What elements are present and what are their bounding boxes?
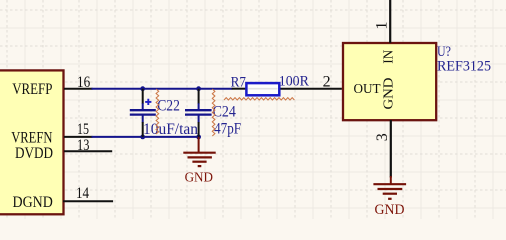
compile-mask squiggle on C22: [156, 89, 159, 134]
pin 15: [64, 121, 93, 138]
junction at C22 top: [140, 86, 145, 91]
value 100R: [279, 73, 309, 89]
resistor R7: [232, 83, 342, 95]
pin name DVDD: [15, 145, 53, 162]
pin name VREFN: [11, 129, 53, 146]
svg-text:IN: IN: [382, 50, 397, 64]
svg-text:C24: C24: [213, 103, 236, 120]
wire VREFP net: [92, 88, 233, 90]
svg-text:DGND: DGND: [13, 194, 53, 211]
designator R7: [231, 74, 247, 90]
svg-text:3: 3: [374, 133, 391, 141]
compile-mask squiggle on R7: [224, 98, 294, 100]
pin number 2: [323, 73, 331, 90]
svg-text:REF3125: REF3125: [437, 59, 491, 75]
pin 14: [63, 185, 113, 202]
svg-text:16: 16: [77, 74, 90, 91]
pin name IN: [382, 50, 397, 64]
pin 3 (GND) wire down: [390, 120, 392, 178]
svg-text:10uF/tan: 10uF/tan: [143, 121, 198, 138]
pin number 3: [374, 133, 391, 141]
designator U?: [437, 44, 451, 60]
connector J body: [0, 70, 64, 214]
pin name VREFP: [12, 81, 52, 98]
designator C24: [213, 103, 236, 120]
junction at C24 bottom: [196, 135, 201, 140]
value REF3125: [437, 59, 491, 75]
compile-mask squiggle on C24: [212, 89, 215, 136]
ground power port GND (right): [373, 176, 406, 199]
svg-text:VREFN: VREFN: [11, 129, 53, 146]
pin name GND: [382, 78, 397, 110]
ground power port GND (left): [183, 137, 215, 166]
svg-text:100R: 100R: [279, 73, 309, 89]
junction at C22 bottom: [140, 135, 145, 140]
value 10uF/tan: [143, 121, 198, 138]
svg-text:1: 1: [373, 22, 390, 30]
svg-text:VREFP: VREFP: [12, 81, 52, 98]
wire VREFN net: [92, 136, 199, 138]
svg-text:GND: GND: [185, 171, 213, 186]
svg-text:13: 13: [77, 137, 89, 154]
svg-text:R7: R7: [231, 74, 247, 90]
pin name DGND: [13, 194, 53, 211]
svg-text:GND: GND: [375, 202, 405, 218]
value 47pF: [214, 121, 241, 138]
net label GND (left): [185, 171, 213, 186]
pin name OUT: [354, 82, 382, 97]
svg-text:14: 14: [76, 185, 89, 202]
net label GND (right): [375, 202, 405, 218]
designator C22: [157, 98, 180, 115]
voltage reference U? REF3125 body: [343, 43, 436, 120]
svg-text:DVDD: DVDD: [15, 145, 53, 162]
pin 16: [64, 74, 93, 91]
capacitor C22: [130, 89, 156, 137]
svg-text:15: 15: [77, 121, 89, 138]
junction at C24 top: [196, 86, 201, 91]
svg-text:2: 2: [323, 73, 331, 90]
capacitor C24: [185, 89, 212, 137]
pin 1 (IN) wire up: [389, 0, 391, 43]
pin 13: [64, 137, 112, 154]
pin number 1: [373, 22, 390, 30]
svg-text:GND: GND: [382, 78, 397, 110]
svg-text:OUT: OUT: [354, 82, 382, 97]
svg-text:C22: C22: [157, 98, 180, 115]
svg-text:47pF: 47pF: [214, 121, 241, 138]
svg-text:U?: U?: [437, 44, 451, 60]
